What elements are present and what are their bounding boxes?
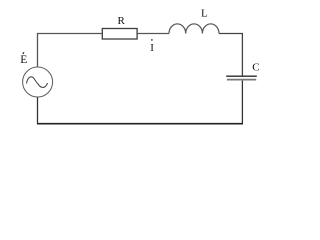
wire bottom xyxy=(37,123,243,125)
sine wave inside source xyxy=(27,77,48,88)
svg-text:I: I xyxy=(150,42,154,54)
resistor R xyxy=(102,29,137,40)
AC source circle xyxy=(23,67,53,97)
dot above E xyxy=(23,52,24,54)
wire resistor to inductor xyxy=(138,33,169,35)
wire top-left segment (source to resistor) xyxy=(38,34,102,68)
dot above I xyxy=(151,39,153,41)
inductor L xyxy=(169,24,219,34)
svg-text:L: L xyxy=(201,8,208,20)
wire bottom-left to source xyxy=(37,97,39,124)
wire capacitor to bottom-right corner xyxy=(241,81,243,124)
svg-text:C: C xyxy=(252,61,259,73)
capacitor C top plate xyxy=(226,75,257,77)
wire inductor to top-right corner xyxy=(219,34,242,77)
svg-text:E: E xyxy=(20,54,27,66)
svg-text:R: R xyxy=(118,15,126,27)
capacitor C bottom plate xyxy=(227,79,256,81)
